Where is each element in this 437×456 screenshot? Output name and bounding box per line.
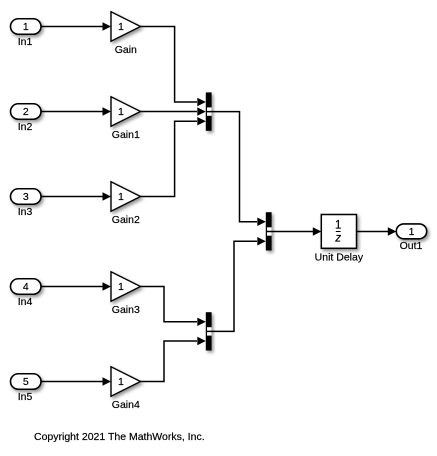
svg-text:1: 1 [409, 226, 415, 238]
wire Mux1 to Mux3 port 1 [207, 112, 266, 226]
svg-text:Gain1: Gain1 [112, 129, 140, 141]
svg-text:Out1: Out1 [400, 240, 423, 252]
gain block Gain1 [111, 97, 141, 141]
gain block Gain2 [111, 182, 141, 226]
wire Gain to Mux1 port 1 [141, 27, 206, 107]
wire In1 to Gain [41, 22, 111, 30]
inport block In3 [11, 189, 42, 218]
svg-text:Gain4: Gain4 [112, 399, 140, 411]
gain block Gain3 [111, 272, 141, 316]
Mux3 output socket notch [267, 227, 272, 235]
svg-text:1: 1 [118, 21, 124, 33]
outport block Out1 [396, 224, 426, 252]
Mux2 output socket notch [207, 327, 212, 335]
svg-text:z: z [334, 232, 341, 244]
mux block Mux3 (2 inputs) [266, 212, 272, 250]
gain block Gain4 [111, 367, 141, 411]
inport block In4 [11, 279, 42, 308]
svg-text:In5: In5 [18, 391, 33, 403]
svg-text:4: 4 [23, 281, 29, 293]
svg-text:In4: In4 [18, 296, 33, 308]
svg-text:In3: In3 [18, 206, 33, 218]
Gain3 triangle body [111, 272, 141, 302]
wire In3 to Gain2 [41, 192, 111, 200]
Gain1 triangle body [111, 97, 141, 127]
wire Gain4 to Mux2 port 2 [141, 337, 206, 382]
wire In5 to Gain4 [41, 377, 111, 385]
In4 oval body [11, 279, 42, 295]
wire Gain3 to Mux2 port 1 [141, 287, 206, 327]
Mux3 bar body [266, 212, 272, 250]
Mux1 bar body [206, 92, 212, 130]
wire Mux3 to Unit Delay [267, 227, 321, 235]
svg-text:Unit Delay: Unit Delay [315, 251, 364, 263]
inport block In2 [11, 104, 42, 133]
svg-text:1: 1 [118, 106, 124, 118]
inport block In5 [11, 374, 42, 403]
svg-text:In1: In1 [18, 36, 33, 48]
wire In2 to Gain1 [41, 107, 111, 115]
svg-text:Gain2: Gain2 [112, 214, 140, 226]
svg-text:1: 1 [118, 376, 124, 388]
wire Mux2 to Mux3 port 2 [207, 237, 266, 331]
Out1 oval body [396, 224, 426, 239]
unit delay block Unit Delay [315, 215, 364, 264]
Mux2 bar body [206, 312, 212, 350]
In3 oval body [11, 189, 42, 205]
Unit Delay fraction bar [336, 231, 341, 233]
mux block Mux2 (2 inputs) [206, 312, 212, 350]
svg-text:1: 1 [23, 21, 29, 33]
gain block Gain [111, 12, 141, 56]
Gain2 triangle body [111, 182, 141, 212]
svg-text:1: 1 [118, 191, 124, 203]
Mux1 output socket notch [207, 107, 212, 115]
svg-text:1: 1 [335, 220, 341, 232]
svg-text:1: 1 [118, 281, 124, 293]
In5 oval body [11, 374, 42, 390]
wire Gain2 to Mux1 port 3 [141, 117, 206, 197]
wire Gain1 to Mux1 port 2 [141, 107, 206, 115]
Unit Delay box body [321, 215, 356, 249]
svg-text:5: 5 [23, 376, 29, 388]
svg-text:Gain: Gain [115, 44, 137, 56]
Gain4 triangle body [111, 367, 141, 397]
svg-text:Copyright 2021 The MathWorks,: Copyright 2021 The MathWorks, Inc. [34, 431, 205, 443]
svg-text:3: 3 [23, 191, 29, 203]
Gain triangle body [111, 12, 141, 42]
svg-text:2: 2 [23, 106, 29, 118]
svg-text:In2: In2 [18, 121, 33, 133]
wire Unit Delay to Out1 [357, 227, 397, 235]
wire In4 to Gain3 [41, 282, 111, 290]
In1 oval body [11, 19, 42, 35]
inport block In1 [11, 19, 42, 48]
mux block Mux1 (3 inputs) [206, 92, 212, 130]
svg-text:Gain3: Gain3 [112, 304, 140, 316]
In2 oval body [11, 104, 42, 120]
